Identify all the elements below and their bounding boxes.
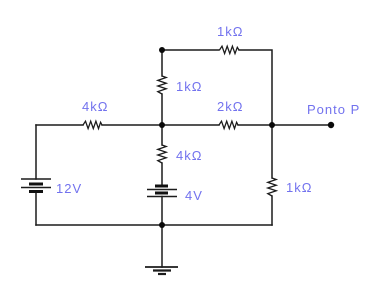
svg-text:4kΩ: 4kΩ [176,148,202,163]
svg-text:12V: 12V [56,181,82,196]
svg-text:1kΩ: 1kΩ [176,79,202,94]
svg-text:4V: 4V [185,188,203,203]
svg-text:1kΩ: 1kΩ [286,180,312,195]
svg-text:2kΩ: 2kΩ [217,99,243,114]
svg-text:1kΩ: 1kΩ [217,24,243,39]
svg-text:Ponto P: Ponto P [307,102,360,117]
svg-text:4kΩ: 4kΩ [82,99,108,114]
